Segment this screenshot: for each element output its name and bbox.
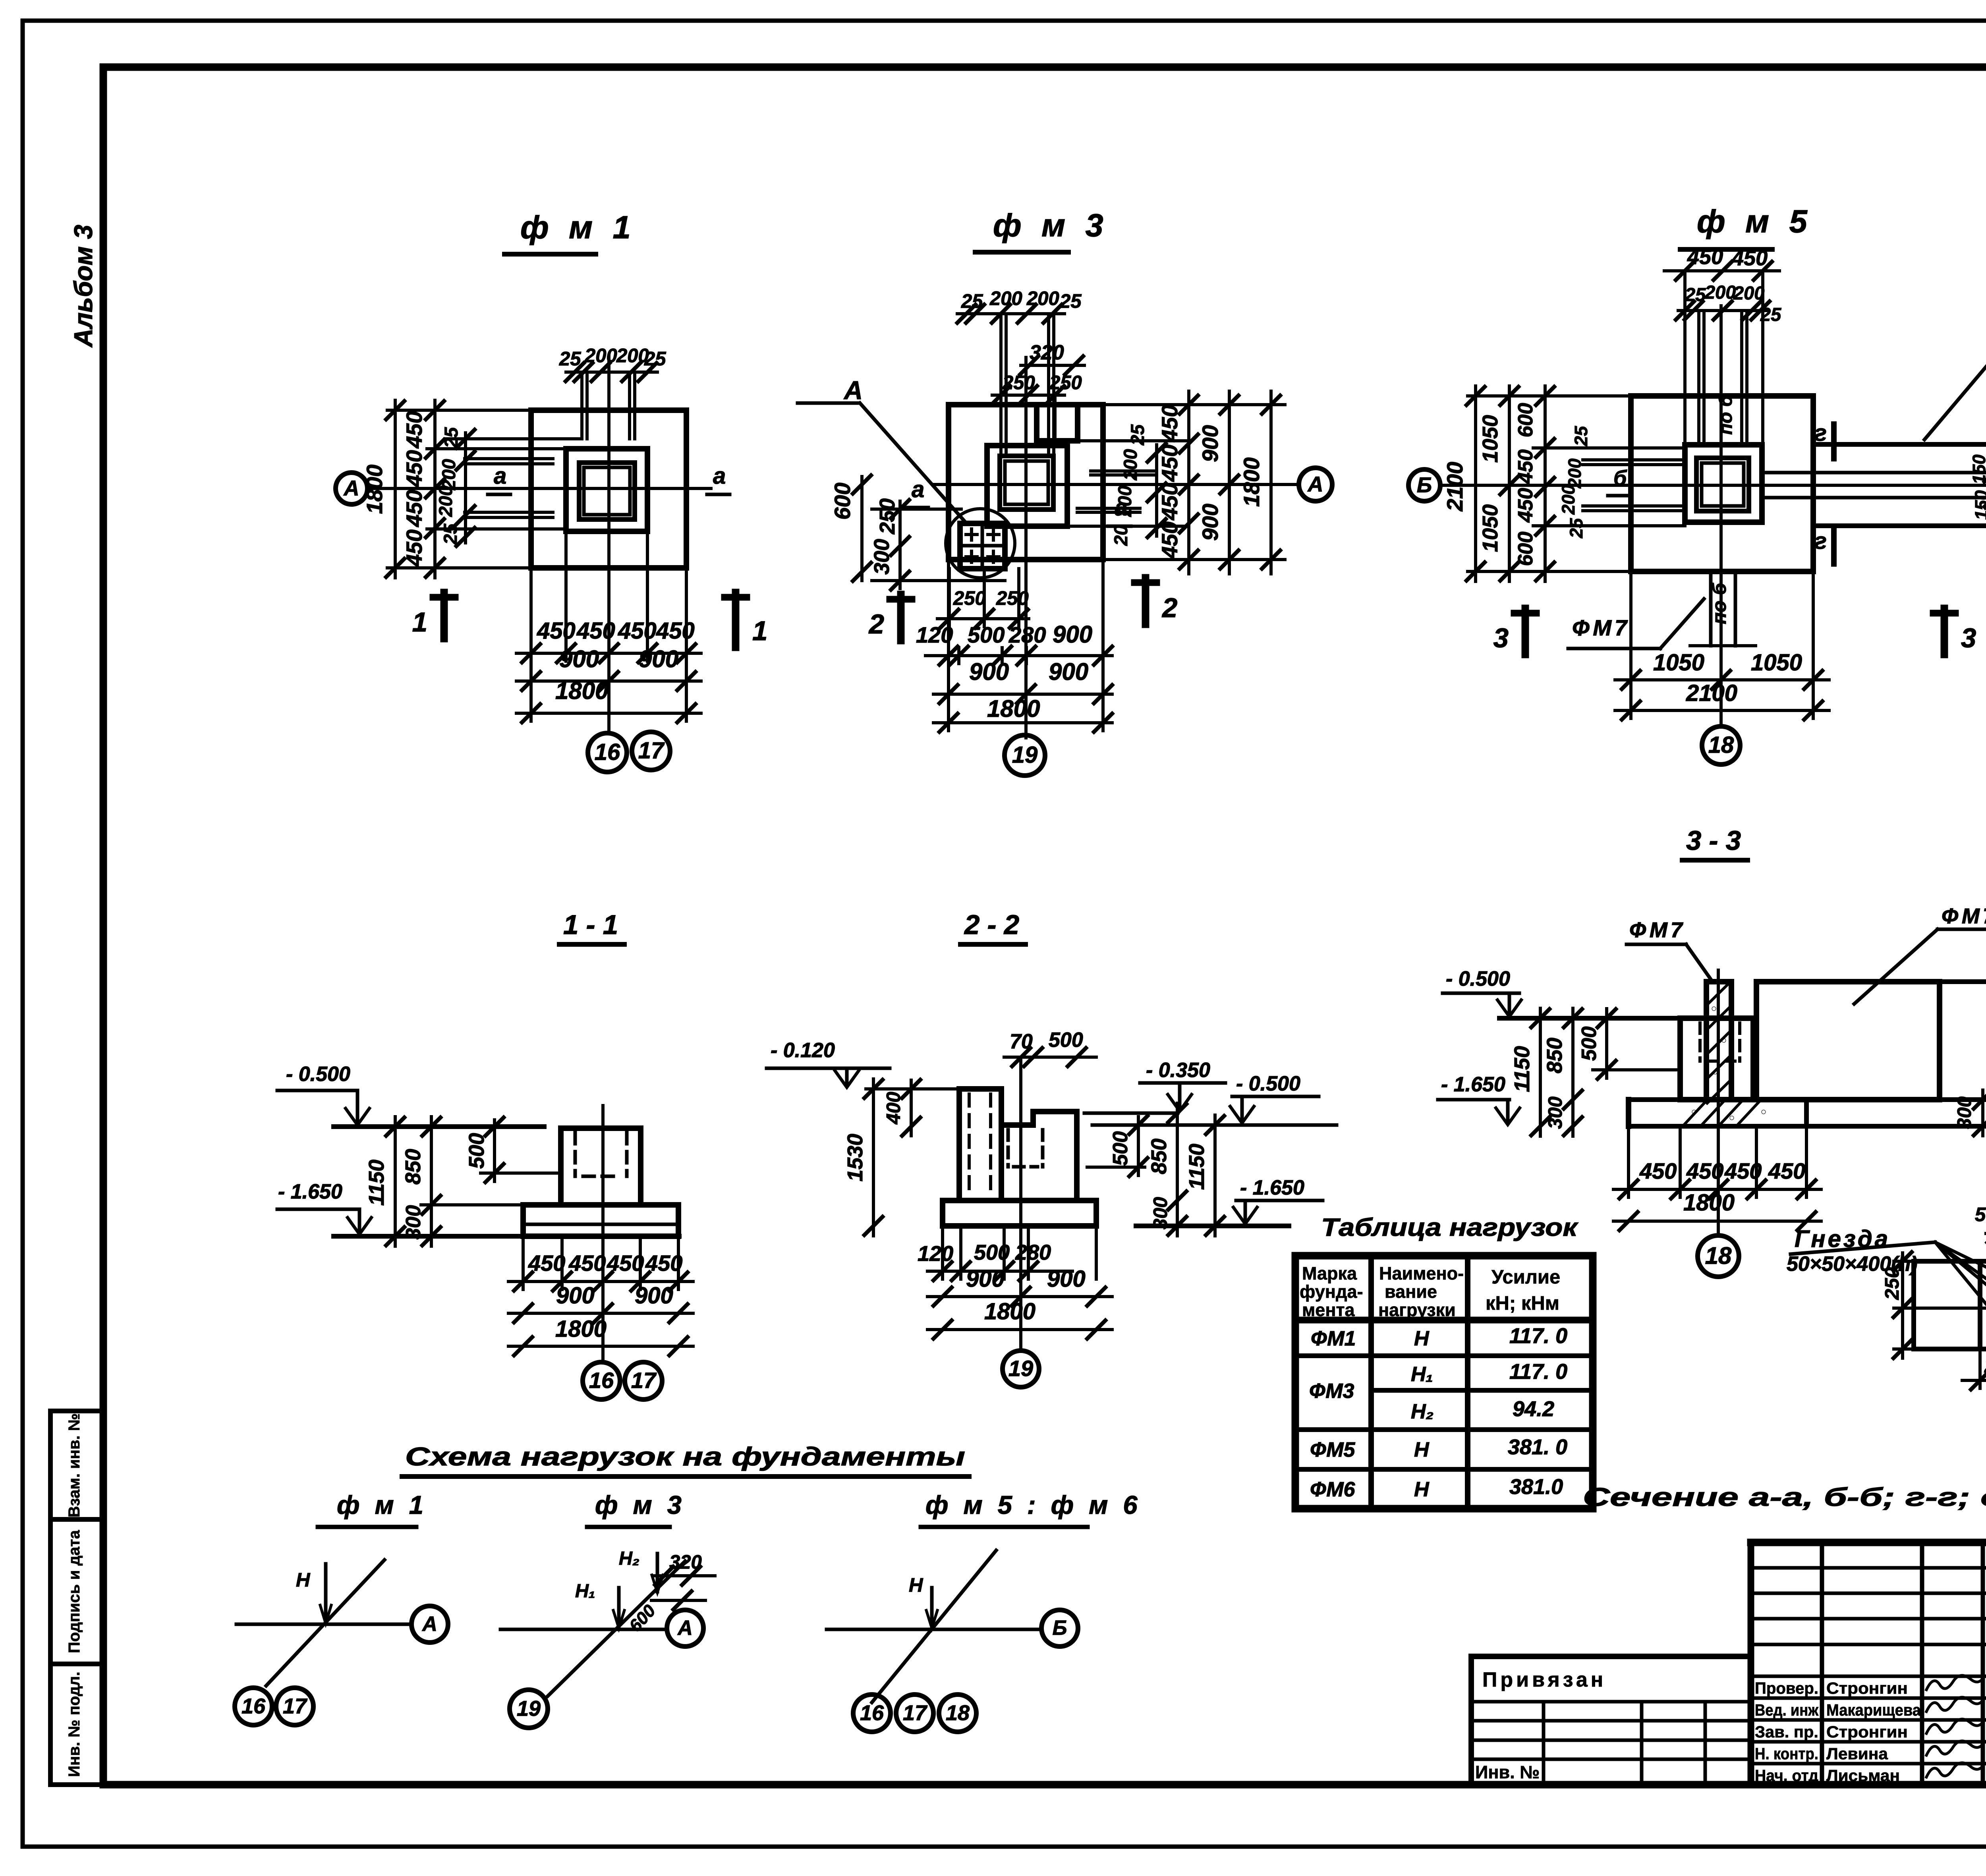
svg-text:Марка: Марка xyxy=(1302,1263,1357,1283)
svg-text:850: 850 xyxy=(401,1149,425,1185)
svg-text:Альбом 3: Альбом 3 xyxy=(69,225,98,348)
svg-text:А: А xyxy=(343,476,359,500)
svg-text:200: 200 xyxy=(1114,486,1135,517)
svg-text:- 0.500: - 0.500 xyxy=(1446,967,1510,990)
svg-text:500: 500 xyxy=(974,1241,1010,1264)
svg-text:250: 250 xyxy=(875,498,899,535)
svg-text:А: А xyxy=(677,1617,693,1640)
svg-text:450: 450 xyxy=(1514,450,1537,484)
svg-text:Н₂: Н₂ xyxy=(619,1548,639,1569)
svg-text:Зав. пр.: Зав. пр. xyxy=(1755,1723,1818,1741)
svg-text:ФМ1: ФМ1 xyxy=(1311,1327,1356,1350)
svg-text:18: 18 xyxy=(946,1701,970,1725)
svg-text:200: 200 xyxy=(1120,449,1141,481)
svg-text:1: 1 xyxy=(752,616,767,646)
svg-text:г: г xyxy=(1814,420,1827,446)
svg-text:20: 20 xyxy=(1110,525,1131,546)
svg-text:900: 900 xyxy=(559,646,599,672)
svg-text:450: 450 xyxy=(1731,246,1768,270)
svg-text:500: 500 xyxy=(1109,1131,1132,1166)
svg-text:Таблица нагрузок: Таблица нагрузок xyxy=(1321,1214,1579,1241)
svg-text:500: 500 xyxy=(968,622,1005,647)
svg-text:150: 150 xyxy=(1969,454,1986,484)
svg-text:ф м 5: ф м 5 xyxy=(1697,204,1813,239)
svg-text:250: 250 xyxy=(1882,1267,1903,1300)
svg-text:1050: 1050 xyxy=(1751,650,1802,676)
svg-text:450: 450 xyxy=(402,450,427,487)
svg-text:2 - 2: 2 - 2 xyxy=(964,909,1019,940)
svg-text:450: 450 xyxy=(618,618,657,644)
svg-text:Подпись и дата: Подпись и дата xyxy=(66,1530,83,1653)
svg-text:850: 850 xyxy=(1147,1139,1171,1174)
svg-text:Стронгин: Стронгин xyxy=(1826,1679,1908,1697)
svg-text:- 0.500: - 0.500 xyxy=(1236,1072,1300,1095)
svg-text:Б: Б xyxy=(1053,1617,1067,1640)
svg-text:300: 300 xyxy=(1545,1096,1566,1129)
svg-text:900: 900 xyxy=(966,1266,1005,1292)
svg-text:500: 500 xyxy=(1578,1027,1601,1061)
svg-text:1050: 1050 xyxy=(1478,415,1502,463)
svg-text:17: 17 xyxy=(638,738,665,764)
svg-text:600: 600 xyxy=(1514,532,1537,566)
svg-text:1800: 1800 xyxy=(987,695,1040,722)
svg-text:600: 600 xyxy=(1514,403,1537,438)
svg-text:250: 250 xyxy=(953,588,986,609)
svg-text:ф м 3: ф м 3 xyxy=(993,208,1109,243)
svg-text:ФМ6: ФМ6 xyxy=(1310,1478,1356,1501)
svg-text:а: а xyxy=(494,463,506,489)
svg-text:Н₁: Н₁ xyxy=(1411,1363,1433,1386)
svg-text:16: 16 xyxy=(589,1368,614,1393)
svg-text:нагрузки: нагрузки xyxy=(1378,1300,1456,1320)
svg-text:кН; кНм: кН; кНм xyxy=(1486,1293,1559,1314)
svg-text:вание: вание xyxy=(1385,1282,1437,1302)
svg-text:1050: 1050 xyxy=(1478,504,1502,552)
svg-text:200: 200 xyxy=(1565,458,1585,488)
svg-text:94.2: 94.2 xyxy=(1513,1397,1554,1421)
svg-text:500: 500 xyxy=(1049,1029,1083,1052)
svg-text:2100: 2100 xyxy=(1686,680,1737,706)
svg-text:Нач. отд: Нач. отд xyxy=(1755,1766,1818,1785)
svg-text:450: 450 xyxy=(1639,1158,1677,1183)
svg-text:19: 19 xyxy=(1008,1356,1033,1381)
svg-text:900: 900 xyxy=(1198,425,1223,462)
svg-text:200: 200 xyxy=(1026,288,1059,309)
svg-text:Схема нагрузок на фундаме: Схема нагрузок на фундаменты xyxy=(405,1442,965,1471)
svg-text:17: 17 xyxy=(631,1368,657,1393)
svg-text:А: А xyxy=(1307,472,1323,496)
svg-text:381.0: 381.0 xyxy=(1509,1475,1563,1499)
svg-text:250: 250 xyxy=(1049,372,1082,394)
svg-text:1800: 1800 xyxy=(1683,1190,1735,1216)
svg-text:б: б xyxy=(1613,466,1627,490)
svg-text:117. 0: 117. 0 xyxy=(1509,1360,1567,1384)
svg-text:3: 3 xyxy=(1961,623,1976,653)
svg-text:Вед. инж: Вед. инж xyxy=(1755,1701,1819,1719)
svg-text:25: 25 xyxy=(1566,518,1586,538)
svg-text:Н: Н xyxy=(1414,1438,1430,1461)
svg-text:450: 450 xyxy=(537,618,576,644)
svg-text:25: 25 xyxy=(1059,291,1082,312)
svg-text:2100: 2100 xyxy=(1442,462,1467,512)
svg-text:ф м 5 : ф м 6: ф м 5 : ф м 6 xyxy=(925,1490,1142,1519)
svg-text:17: 17 xyxy=(903,1701,928,1725)
svg-text:А: А xyxy=(421,1613,437,1636)
svg-text:1: 1 xyxy=(412,607,427,637)
svg-text:Н: Н xyxy=(1414,1478,1430,1501)
svg-text:450: 450 xyxy=(1157,483,1182,520)
svg-text:1 - 1: 1 - 1 xyxy=(563,909,618,940)
svg-text:900: 900 xyxy=(635,1283,673,1309)
svg-text:1050: 1050 xyxy=(1653,650,1704,676)
svg-text:Сечение а-а, б-б; г-г; д: Сечение а-а, б-б; г-г; д-д см. лист 7 xyxy=(1583,1482,1986,1511)
svg-text:900: 900 xyxy=(1049,658,1088,685)
svg-text:120: 120 xyxy=(918,1242,953,1266)
svg-text:50: 50 xyxy=(1975,1204,1986,1226)
svg-text:3: 3 xyxy=(1493,623,1509,653)
svg-text:- 1.650: - 1.650 xyxy=(1240,1176,1304,1199)
svg-text:400: 400 xyxy=(883,1092,904,1125)
svg-text:450: 450 xyxy=(1768,1158,1805,1183)
svg-text:2: 2 xyxy=(868,609,884,639)
svg-text:250: 250 xyxy=(996,588,1029,609)
svg-text:600: 600 xyxy=(830,483,855,519)
svg-text:900: 900 xyxy=(639,646,678,672)
svg-text:Привязан: Привязан xyxy=(1482,1668,1606,1691)
svg-text:ФМ7: ФМ7 xyxy=(1629,918,1686,942)
svg-text:1150: 1150 xyxy=(365,1160,388,1206)
svg-text:фунда-: фунда- xyxy=(1300,1282,1363,1302)
svg-text:25: 25 xyxy=(1571,426,1591,446)
svg-text:19: 19 xyxy=(1012,742,1038,768)
svg-text:ФМ5: ФМ5 xyxy=(1310,1438,1356,1461)
svg-text:- 0.500: - 0.500 xyxy=(286,1063,350,1086)
svg-text:1800: 1800 xyxy=(362,465,387,514)
svg-text:450: 450 xyxy=(1514,488,1537,523)
svg-text:19: 19 xyxy=(517,1697,541,1720)
svg-text:- 1.650: - 1.650 xyxy=(278,1180,342,1203)
svg-text:450: 450 xyxy=(402,529,427,567)
svg-text:280: 280 xyxy=(1008,622,1046,647)
svg-text:ФМ3: ФМ3 xyxy=(1309,1380,1354,1403)
svg-text:Б: Б xyxy=(1417,473,1432,497)
svg-text:200: 200 xyxy=(435,486,456,517)
svg-text:450: 450 xyxy=(1157,405,1182,442)
svg-text:Левина: Левина xyxy=(1826,1745,1888,1763)
svg-text:300: 300 xyxy=(1954,1096,1975,1129)
svg-text:450: 450 xyxy=(576,618,615,644)
svg-text:1530: 1530 xyxy=(843,1134,867,1181)
svg-text:по б: по б xyxy=(1715,394,1736,434)
svg-text:Лисьман: Лисьман xyxy=(1826,1766,1900,1785)
svg-text:3 - 3: 3 - 3 xyxy=(1686,825,1741,856)
svg-text:ф м 1: ф м 1 xyxy=(337,1490,427,1519)
svg-text:1800: 1800 xyxy=(1239,457,1264,507)
svg-text:900: 900 xyxy=(1053,621,1092,648)
svg-text:1150: 1150 xyxy=(1510,1046,1534,1092)
svg-text:16: 16 xyxy=(595,739,620,765)
svg-text:450: 450 xyxy=(402,411,427,448)
svg-text:Взам. инв. №: Взам. инв. № xyxy=(66,1413,83,1517)
svg-text:1800: 1800 xyxy=(555,1316,607,1342)
svg-text:117. 0: 117. 0 xyxy=(1509,1324,1567,1348)
svg-text:А: А xyxy=(843,376,863,405)
svg-text:ФМ7: ФМ7 xyxy=(1572,615,1630,640)
svg-text:- 0.350: - 0.350 xyxy=(1146,1059,1210,1082)
svg-text:Инв. №: Инв. № xyxy=(1475,1762,1540,1782)
svg-text:25: 25 xyxy=(440,523,461,545)
svg-text:1150: 1150 xyxy=(1185,1144,1209,1190)
svg-text:25: 25 xyxy=(1127,424,1148,446)
svg-text:450: 450 xyxy=(568,1251,606,1276)
svg-text:900: 900 xyxy=(556,1283,595,1309)
svg-text:2: 2 xyxy=(1161,593,1177,623)
svg-text:450: 450 xyxy=(402,490,427,527)
svg-text:500: 500 xyxy=(465,1133,489,1169)
svg-text:16: 16 xyxy=(241,1694,266,1718)
svg-text:а: а xyxy=(912,477,924,502)
svg-text:г: г xyxy=(1814,528,1827,554)
svg-text:1800: 1800 xyxy=(984,1299,1036,1324)
svg-text:450: 450 xyxy=(1157,444,1182,482)
svg-text:18: 18 xyxy=(1705,1242,1732,1269)
svg-text:450: 450 xyxy=(656,618,695,644)
svg-text:- 1.650: - 1.650 xyxy=(1441,1073,1505,1096)
svg-text:мента: мента xyxy=(1302,1300,1355,1320)
svg-text:900: 900 xyxy=(1047,1266,1086,1292)
svg-text:16: 16 xyxy=(860,1701,884,1725)
svg-text:900: 900 xyxy=(1198,504,1223,540)
svg-text:ф м 3: ф м 3 xyxy=(595,1490,686,1519)
svg-text:Н₂: Н₂ xyxy=(1411,1400,1433,1423)
svg-text:а: а xyxy=(713,463,726,489)
svg-text:Провер.: Провер. xyxy=(1755,1679,1818,1697)
svg-text:381. 0: 381. 0 xyxy=(1508,1435,1567,1459)
svg-text:Усилие: Усилие xyxy=(1491,1266,1560,1288)
svg-text:450: 450 xyxy=(1724,1158,1762,1183)
svg-text:300: 300 xyxy=(402,1205,425,1240)
svg-text:Макарищева: Макарищева xyxy=(1826,1701,1921,1719)
svg-text:200: 200 xyxy=(1558,484,1578,515)
svg-text:Н₁: Н₁ xyxy=(575,1580,595,1601)
svg-text:300: 300 xyxy=(1150,1197,1171,1229)
svg-text:450: 450 xyxy=(1157,521,1182,559)
svg-text:17: 17 xyxy=(283,1694,308,1718)
svg-text:Н: Н xyxy=(909,1575,923,1596)
svg-text:18: 18 xyxy=(1708,732,1734,758)
svg-text:ф м 1: ф м 1 xyxy=(520,210,636,245)
svg-text:ФМ7: ФМ7 xyxy=(1942,904,1986,928)
svg-text:1800: 1800 xyxy=(555,677,608,704)
svg-text:- 0.120: - 0.120 xyxy=(771,1039,835,1062)
svg-text:850: 850 xyxy=(1543,1038,1567,1073)
svg-text:Н: Н xyxy=(296,1569,311,1591)
svg-text:Н. контр.: Н. контр. xyxy=(1755,1745,1818,1763)
svg-text:Инв. № подл.: Инв. № подл. xyxy=(66,1671,83,1777)
svg-text:Н: Н xyxy=(1414,1327,1430,1350)
svg-text:Наимено-: Наимено- xyxy=(1379,1263,1464,1283)
svg-text:200: 200 xyxy=(584,345,617,367)
svg-text:Стронгин: Стронгин xyxy=(1826,1723,1908,1741)
